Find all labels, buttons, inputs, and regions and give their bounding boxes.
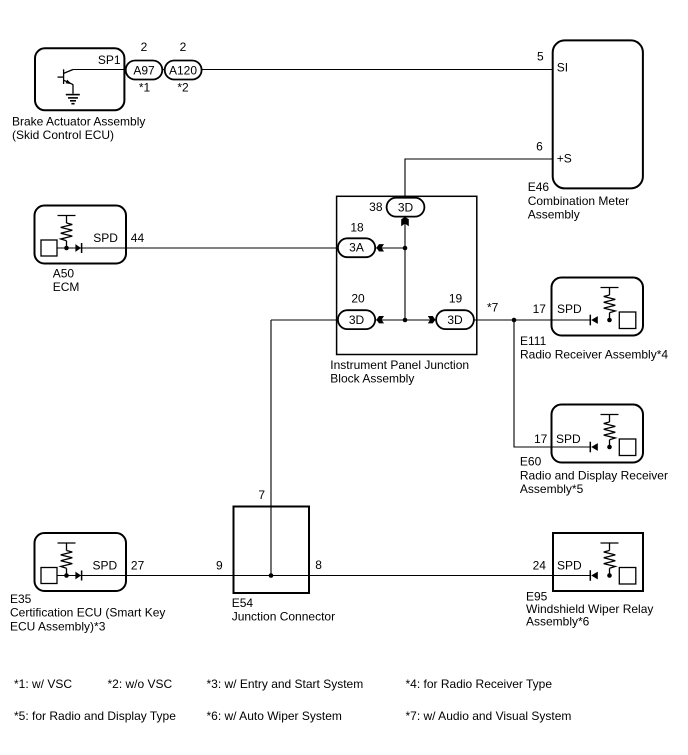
svg-text:*4: for Radio Receiver Type: *4: for Radio Receiver Type [406, 677, 553, 691]
E54 junction dot [269, 573, 274, 578]
svg-text:SPD: SPD [93, 231, 118, 245]
windshield wiper relay box E95 [553, 533, 643, 591]
transistor Q inside SP1 box [58, 69, 74, 94]
svg-text:18: 18 [350, 220, 364, 234]
connector oval A97 [126, 61, 163, 80]
svg-text:Brake Actuator Assembly: Brake Actuator Assembly [12, 114, 145, 128]
svg-text:38: 38 [369, 200, 383, 214]
svg-text:SPD: SPD [557, 302, 582, 316]
svg-text:2: 2 [180, 40, 187, 54]
svg-text:44: 44 [131, 231, 145, 245]
junction connector box E54 [234, 507, 310, 594]
svg-text:Junction Connector: Junction Connector [232, 610, 335, 624]
svg-text:27: 27 [131, 559, 145, 573]
radio receiver assembly box E111 [552, 278, 644, 336]
up arrow into 3D [401, 217, 409, 226]
svg-text:SPD: SPD [93, 559, 118, 573]
ground symbol [66, 95, 80, 104]
svg-text:(Skid Control ECU): (Skid Control ECU) [12, 128, 114, 142]
svg-text:E60: E60 [520, 455, 542, 469]
svg-text:Assembly*5: Assembly*5 [520, 482, 584, 496]
svg-text:*2: *2 [177, 81, 189, 95]
svg-text:20: 20 [351, 291, 365, 305]
svg-text:+S: +S [557, 152, 572, 166]
svg-text:*7: *7 [487, 300, 499, 314]
svg-text:Assembly: Assembly [528, 208, 580, 222]
svg-text:E111: E111 [520, 334, 547, 348]
svg-text:Combination Meter: Combination Meter [528, 194, 629, 208]
left arrow into 3A [376, 244, 384, 251]
instrument panel junction block rect [337, 196, 477, 354]
svg-text:6: 6 [536, 139, 543, 153]
svg-text:E54: E54 [232, 596, 254, 610]
junction dot on vertical at 3A row [403, 246, 408, 251]
svg-text:*5: for Radio and Display Type: *5: for Radio and Display Type [14, 709, 176, 723]
svg-text:*2: w/o VSC: *2: w/o VSC [108, 677, 173, 691]
svg-text:ECM: ECM [53, 280, 80, 294]
svg-text:*1: *1 [139, 81, 151, 95]
svg-text:Certification ECU (Smart Key: Certification ECU (Smart Key [10, 606, 165, 620]
left arrow into 3D 20 [376, 316, 384, 323]
svg-text:24: 24 [533, 558, 547, 572]
ECM internals: IC square [41, 216, 82, 257]
svg-text:*7: w/ Audio and Visual System: *7: w/ Audio and Visual System [406, 709, 572, 723]
wire ECM row to 3A [57, 247, 405, 249]
radio and display receiver box E60 [552, 405, 644, 463]
svg-text:SI: SI [557, 61, 568, 75]
svg-text:5: 5 [537, 50, 544, 64]
svg-text:*3: w/ Entry and Start System: *3: w/ Entry and Start System [207, 677, 364, 691]
right arrow into 3D 19 [428, 316, 436, 323]
svg-text:SPD: SPD [557, 558, 582, 572]
svg-text:9: 9 [216, 559, 223, 573]
svg-text:3D: 3D [447, 313, 463, 327]
svg-text:3D: 3D [398, 200, 414, 214]
connector oval A120 [165, 61, 202, 80]
svg-text:A97: A97 [133, 63, 155, 77]
svg-text:*6: w/ Auto Wiper System: *6: w/ Auto Wiper System [207, 709, 342, 723]
svg-text:E46: E46 [528, 180, 550, 194]
combination meter assembly box E46 [553, 40, 643, 188]
svg-text:A120: A120 [169, 63, 197, 77]
E35 internals [41, 543, 82, 584]
E95 internals [590, 543, 636, 584]
wire top row SP1 to SI [73, 69, 553, 71]
svg-text:ECU Assembly)*3: ECU Assembly)*3 [10, 619, 106, 633]
svg-text:*1: w/ VSC: *1: w/ VSC [14, 677, 72, 691]
svg-text:17: 17 [533, 302, 547, 316]
wire +S row and vertical to junction block [405, 159, 553, 320]
junction dot on vertical at bottom row [403, 318, 408, 323]
junction block oval 3D pin 19 [436, 310, 474, 329]
svg-text:Instrument Panel Junction: Instrument Panel Junction [330, 358, 469, 372]
svg-text:A50: A50 [53, 266, 75, 280]
junction block oval 3D pin 38 [387, 198, 425, 217]
wire vertical to E54 [270, 320, 272, 576]
brake actuator assembly box (Skid Control ECU) [35, 48, 124, 110]
wire vertical branch to E60 [514, 320, 590, 447]
E60 internals [590, 415, 636, 456]
svg-text:E35: E35 [10, 592, 32, 606]
certification ECU box E35 [35, 533, 127, 591]
svg-text:19: 19 [449, 291, 463, 305]
svg-text:Radio and Display Receiver: Radio and Display Receiver [520, 468, 668, 482]
junction dot branch to E60 [512, 318, 517, 323]
svg-text:3A: 3A [349, 240, 364, 254]
svg-text:Assembly*6: Assembly*6 [526, 615, 590, 629]
junction block oval 3D pin 20 [338, 310, 375, 329]
E111 internals [590, 288, 636, 329]
svg-text:3D: 3D [349, 313, 365, 327]
svg-text:17: 17 [534, 432, 548, 446]
svg-text:Block Assembly: Block Assembly [330, 372, 414, 386]
wire bottom junction row to E111 [271, 319, 590, 321]
svg-text:SPD: SPD [556, 432, 581, 446]
svg-text:8: 8 [315, 558, 322, 572]
junction block oval 3A pin 18 [338, 238, 375, 257]
ECM box A50 [35, 206, 127, 264]
svg-text:SP1: SP1 [98, 53, 121, 67]
wire bottom row E35 to E95 [57, 575, 590, 577]
svg-text:2: 2 [141, 40, 148, 54]
svg-text:Radio Receiver Assembly*4: Radio Receiver Assembly*4 [520, 348, 668, 362]
svg-text:7: 7 [258, 488, 265, 502]
